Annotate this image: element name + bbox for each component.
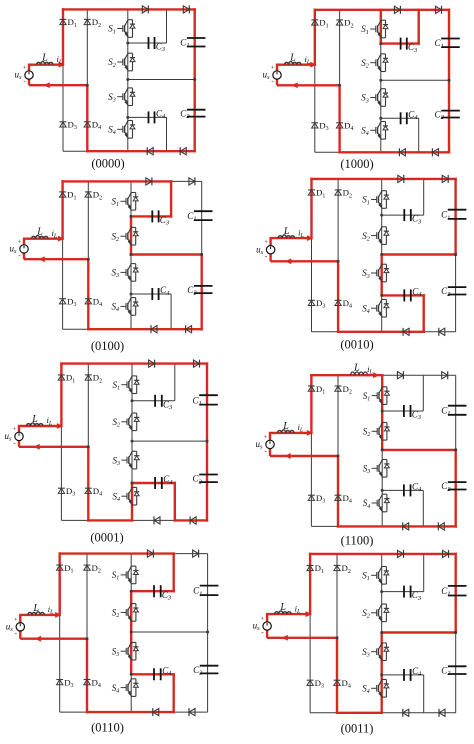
wire C4 branch (128, 116, 167, 118)
wire second rail (D2/D4 leg) (336, 554, 338, 713)
wire second rail (D2/D4 leg) (339, 10, 341, 153)
wire red source loop (277, 65, 340, 86)
wire red segment (88, 328, 201, 330)
IGBT S3 (382, 263, 387, 265)
svg-text:C1: C1 (441, 586, 450, 598)
svg-text:D4: D4 (342, 678, 351, 690)
IGBT S4 (382, 298, 387, 300)
svg-text:S1: S1 (108, 24, 116, 36)
bottom rail diode A (399, 149, 405, 156)
svg-text:(0010): (0010) (340, 338, 373, 352)
svg-text:D3: D3 (68, 120, 77, 132)
svg-text:D2: D2 (343, 384, 352, 396)
wire red segment (381, 375, 383, 450)
wire red segment (61, 362, 207, 364)
top rail diode B (443, 550, 449, 557)
diode D4 (336, 122, 343, 124)
wire switch leg (130, 554, 132, 713)
wire red segment (312, 178, 456, 180)
svg-text:C4: C4 (162, 666, 172, 678)
subcircuit (0110) (6, 550, 219, 735)
svg-text:D4: D4 (92, 677, 101, 689)
wire input (L wire) (29, 64, 63, 66)
top rail diode A (398, 550, 404, 557)
node N3 (S3/S4 midpoint) (130, 293, 133, 296)
svg-text:C2: C2 (441, 666, 451, 678)
diode D1 (60, 18, 67, 20)
svg-text:S1: S1 (362, 571, 370, 583)
node mid/right rail junction (454, 631, 457, 634)
capacitor C3 (151, 210, 153, 222)
svg-text:S2: S2 (112, 608, 120, 620)
wire midpoint link (381, 79, 449, 81)
capacitor C3 (400, 38, 402, 50)
wire midpoint link (131, 631, 207, 633)
current arrow iL (307, 236, 313, 241)
IGBT S4 (382, 679, 387, 681)
wire second rail (D2/D4 leg) (337, 375, 339, 526)
inductor L (37, 62, 54, 65)
wire red segment (310, 553, 456, 555)
diode D3 (59, 298, 66, 300)
wire midpoint link (382, 254, 456, 256)
svg-text:C1: C1 (441, 406, 450, 418)
svg-text:S4: S4 (108, 125, 116, 137)
wire return (271, 260, 339, 262)
inductor L (28, 612, 45, 615)
wire C4 branch (131, 673, 174, 675)
diode D2 (85, 374, 92, 376)
wire red D1 rail up (59, 554, 61, 615)
svg-text:C4: C4 (412, 287, 422, 299)
wire red segment (172, 674, 174, 712)
svg-text:C4: C4 (412, 482, 422, 494)
wire input (L wire) (271, 237, 312, 239)
wire C3 branch (128, 42, 167, 44)
node N2 (S2/S3 midpoint) (381, 448, 384, 451)
wire bottom rail (310, 712, 456, 714)
svg-text:C4: C4 (412, 666, 422, 678)
capacitor C2 (448, 665, 467, 667)
wire red segment (130, 591, 132, 674)
wire bottom rail (312, 331, 456, 333)
wire red segment (454, 179, 456, 255)
capacitor C2 (200, 665, 219, 667)
node mid/right rail junction (193, 78, 196, 81)
diode D3 (308, 299, 315, 301)
svg-text:D2: D2 (92, 563, 101, 575)
bottom rail diode B (180, 148, 186, 155)
svg-text:S2: S2 (362, 231, 370, 243)
wire red D4 rail (337, 456, 339, 526)
capacitor C4 (400, 112, 402, 124)
diode D1 (58, 374, 65, 376)
IGBT S2 (131, 603, 136, 605)
wire return (19, 446, 88, 448)
subcircuit (1000) (263, 6, 460, 171)
node N3 (S3/S4 midpoint) (381, 489, 384, 492)
node N3 (S3/S4 midpoint) (131, 482, 134, 485)
bottom rail diode A (153, 709, 159, 716)
current arrow iL (306, 612, 312, 617)
node N1 (S1/S2 midpoint) (130, 590, 133, 593)
diode D2 (334, 564, 341, 566)
bottom rail diode A (147, 148, 153, 155)
svg-text:us: us (10, 244, 18, 256)
svg-text:D4: D4 (343, 493, 352, 505)
diode D1 (56, 564, 63, 566)
svg-text:S2: S2 (363, 427, 371, 439)
node N3 (S3/S4 midpoint) (380, 294, 383, 297)
svg-text:+: + (23, 65, 27, 72)
wire source stubs (269, 433, 271, 440)
wire bottom rail (61, 519, 207, 521)
diode D2 (335, 385, 342, 387)
capacitor C3 (403, 405, 405, 417)
return current arrow (285, 453, 291, 458)
source us (263, 622, 271, 630)
wire left rail (D1/D3 leg) (309, 554, 311, 713)
wire switch leg (131, 364, 133, 521)
bottom rail diode A (403, 709, 409, 716)
capacitor C1 (187, 37, 206, 39)
wire red segment (172, 554, 174, 592)
wire source stubs (28, 65, 30, 71)
node mid/right rail junction (206, 631, 209, 634)
svg-text:S1: S1 (112, 197, 120, 209)
svg-text:D3: D3 (67, 297, 76, 309)
wire red segment (455, 554, 457, 633)
wire red segment (381, 633, 383, 713)
return current arrow (39, 257, 45, 262)
capacitor C1 (448, 209, 467, 211)
wire input (L wire) (20, 614, 59, 616)
node return/D4 junction (86, 84, 89, 87)
wire red segment (340, 151, 449, 153)
node mid/right rail junction (448, 79, 451, 82)
capacitor C3 (154, 395, 156, 407)
diode D3 (308, 494, 315, 496)
diode D1 (307, 564, 314, 566)
wire midpoint link (382, 449, 456, 451)
wire red segment (382, 449, 456, 451)
svg-text:S2: S2 (362, 608, 370, 620)
wire red segment (132, 482, 175, 484)
capacitor C3 (403, 586, 405, 598)
svg-text:S2: S2 (112, 231, 120, 243)
capacitor C4 (148, 111, 150, 123)
capacitor C1 (199, 394, 218, 396)
svg-text:L: L (41, 53, 48, 64)
svg-text:L: L (282, 421, 289, 432)
svg-text:(0000): (0000) (91, 157, 124, 171)
svg-text:+: + (261, 616, 265, 623)
wire right output rail (194, 9, 196, 151)
bottom rail diode B (186, 326, 192, 333)
IGBT S3 (382, 642, 387, 644)
svg-text:L: L (279, 602, 286, 613)
IGBT S3 (382, 459, 387, 461)
top rail diode B (183, 6, 189, 13)
svg-text:us: us (6, 621, 14, 633)
diode D2 (335, 189, 342, 191)
capacitor C4 (153, 668, 155, 680)
wire red segment (380, 10, 382, 44)
svg-text:+: + (14, 616, 18, 623)
svg-text:-: - (261, 629, 264, 637)
wire second rail (D2/D4 leg) (87, 364, 89, 521)
svg-text:S4: S4 (113, 491, 121, 503)
wire midpoint link (131, 254, 202, 256)
node N2 (S2/S3 midpoint) (130, 631, 133, 634)
svg-text:(0001): (0001) (90, 531, 123, 545)
wire C4 branch (132, 482, 175, 484)
wire C4 branch (131, 293, 171, 295)
current arrow iL (57, 423, 63, 428)
inductor L (278, 430, 295, 433)
wire red segment (193, 9, 195, 151)
wire red source loop (271, 238, 339, 261)
svg-text:iL: iL (52, 228, 58, 240)
IGBT S1 (132, 375, 137, 377)
wire red D1 rail up (62, 9, 64, 64)
inductor L (278, 235, 295, 238)
subcircuit (0100) (10, 177, 213, 353)
svg-text:(1000): (1000) (340, 157, 373, 171)
wire red D4 rail (87, 259, 89, 329)
wire left rail (D1/D3 leg) (59, 554, 61, 713)
capacitor C4 (151, 288, 153, 300)
wire C3 branch (131, 590, 174, 592)
wire return (24, 258, 88, 260)
wire input (L wire) (270, 432, 311, 434)
svg-text:D3: D3 (316, 493, 325, 505)
wire red D4 rail (86, 639, 88, 712)
diode D2 (336, 19, 343, 21)
svg-text:S3: S3 (362, 268, 370, 280)
svg-text:D1: D1 (68, 17, 77, 29)
node mid/right rail junction (200, 253, 203, 256)
svg-text:L: L (289, 53, 296, 64)
node return/D4 junction (87, 445, 90, 448)
inductor L (top rail) (351, 374, 368, 376)
wire right output rail (207, 554, 209, 713)
wire left rail (D1/D3 leg) (62, 181, 64, 329)
source us (16, 623, 24, 631)
wire left rail (D1/D3 leg) (314, 10, 316, 153)
IGBT S2 (132, 412, 137, 414)
node N1 (S1/S2 midpoint) (126, 42, 129, 45)
wire right output rail (201, 181, 203, 329)
subcircuit (0011) (253, 550, 467, 736)
wire return (29, 84, 87, 86)
capacitor C1 (441, 38, 460, 40)
top rail diode B (442, 175, 448, 182)
return current arrow (282, 635, 288, 640)
wire red source loop (270, 433, 338, 456)
node N2 (S2/S3 midpoint) (126, 78, 129, 81)
capacitor C1 (448, 585, 467, 587)
wire switch leg (127, 9, 129, 151)
wire C4 branch (382, 294, 424, 296)
IGBT S1 (382, 190, 387, 192)
capacitor C2 (448, 286, 467, 288)
return current arrow (44, 83, 50, 88)
wire red top rail (with boost inductor) (311, 374, 350, 376)
wire red segment (60, 552, 174, 554)
svg-text:iL: iL (298, 227, 304, 239)
wire red source loop (267, 614, 337, 638)
IGBT S4 (128, 120, 133, 122)
node N2 (S2/S3 midpoint) (131, 440, 134, 443)
wire midpoint link (382, 632, 456, 634)
source us (15, 432, 23, 440)
svg-text:D3: D3 (66, 486, 75, 498)
svg-text:S3: S3 (112, 646, 120, 658)
node return/D4 junction (338, 84, 341, 87)
capacitor C4 (403, 289, 405, 301)
svg-text:-: - (13, 439, 16, 447)
wire red segment (337, 712, 382, 714)
top rail diode A (149, 360, 155, 367)
node mid/right rail junction (454, 448, 457, 451)
wire red D4 rail (337, 261, 339, 332)
wire red segment (382, 253, 456, 255)
svg-text:S4: S4 (362, 684, 370, 696)
svg-text:S1: S1 (363, 391, 371, 403)
diode D4 (85, 487, 92, 489)
node return/D4 junction (336, 636, 339, 639)
svg-text:D1: D1 (66, 373, 75, 385)
node N1 (S1/S2 midpoint) (380, 214, 383, 217)
node N2 (S2/S3 midpoint) (379, 79, 382, 82)
wire return (270, 455, 338, 457)
svg-text:D2: D2 (342, 563, 351, 575)
inductor L (285, 62, 302, 65)
wire switch leg (381, 554, 383, 713)
svg-text:D3: D3 (319, 121, 328, 133)
capacitor C1 (200, 585, 219, 587)
diode D2 (84, 18, 91, 20)
wire red segment (170, 181, 172, 216)
bottom rail diode B (438, 523, 444, 530)
diode D4 (335, 299, 342, 301)
svg-text:D2: D2 (93, 373, 102, 385)
bottom rail diode A (154, 517, 160, 524)
bottom rail diode A (403, 328, 409, 335)
svg-text:us: us (15, 70, 23, 82)
diode D3 (56, 679, 63, 681)
svg-text:C2: C2 (193, 665, 203, 677)
svg-text:us: us (256, 244, 264, 256)
node N1 (S1/S2 midpoint) (381, 410, 384, 413)
top rail diode B (193, 550, 199, 557)
return current arrow (35, 636, 41, 641)
inductor L (275, 611, 292, 614)
svg-text:D1: D1 (64, 563, 73, 575)
diode D3 (307, 679, 314, 681)
wire red source loop (29, 65, 87, 86)
svg-text:C4: C4 (163, 474, 173, 486)
wire right output rail (455, 179, 457, 332)
wire C4 branch (382, 674, 424, 676)
svg-text:-: - (18, 251, 21, 259)
wire input (L wire) (267, 613, 310, 615)
svg-text:us: us (253, 621, 261, 633)
wire red segment (88, 519, 132, 521)
IGBT S4 (381, 121, 386, 123)
svg-text:C2: C2 (193, 474, 203, 486)
svg-text:C1: C1 (180, 38, 189, 50)
svg-text:D1: D1 (316, 188, 325, 200)
IGBT S4 (131, 297, 136, 299)
return current arrow (292, 83, 298, 88)
wire top rail (63, 8, 195, 10)
capacitor C2 (448, 481, 467, 483)
top rail diode A (142, 6, 148, 13)
wire C3 branch (382, 410, 423, 412)
wire bottom rail (311, 525, 455, 527)
svg-text:D1: D1 (67, 190, 76, 202)
node N2 (S2/S3 midpoint) (130, 253, 133, 256)
diode D1 (308, 189, 315, 191)
wire bottom rail (63, 150, 195, 152)
diode D1 (59, 191, 66, 193)
wire left rail (D1/D3 leg) (310, 375, 312, 526)
wire return (20, 638, 87, 640)
wire red segment (381, 255, 383, 296)
wire red segment (315, 9, 449, 11)
inductor L (32, 236, 49, 239)
source us (266, 246, 274, 254)
wire red segment (381, 42, 419, 44)
svg-text:+: + (271, 65, 275, 72)
return current arrow (34, 444, 40, 449)
diode D3 (60, 121, 67, 123)
wire red segment (338, 331, 424, 333)
IGBT S1 (131, 565, 136, 567)
svg-text:D1: D1 (319, 18, 328, 30)
node N1 (S1/S2 midpoint) (379, 42, 382, 45)
capacitor C3 (148, 37, 150, 49)
wire red segment (174, 483, 176, 520)
diode D4 (85, 298, 92, 300)
subcircuit (0000) (15, 5, 206, 170)
wire midpoint link (132, 440, 207, 442)
wire red segment (131, 483, 133, 520)
wire midpoint link (128, 79, 195, 81)
svg-text:D2: D2 (92, 17, 101, 29)
bottom rail diode A (151, 326, 157, 333)
svg-text:S4: S4 (361, 126, 369, 138)
wire right output rail (206, 364, 208, 521)
capacitor C2 (187, 109, 206, 111)
wire source stubs (266, 614, 268, 622)
bottom rail diode B (439, 709, 445, 716)
svg-text:C4: C4 (156, 109, 166, 121)
IGBT S4 (382, 493, 387, 495)
wire red segment (63, 8, 195, 10)
wire bottom rail (315, 151, 449, 153)
wire right output rail (448, 10, 450, 153)
svg-text:S1: S1 (112, 570, 120, 582)
svg-text:C1: C1 (193, 395, 202, 407)
wire red D1 rail up (309, 554, 311, 614)
current arrow iL (55, 612, 61, 617)
svg-text:+: + (264, 434, 268, 441)
svg-text:D3: D3 (315, 678, 324, 690)
svg-text:D2: D2 (93, 190, 102, 202)
